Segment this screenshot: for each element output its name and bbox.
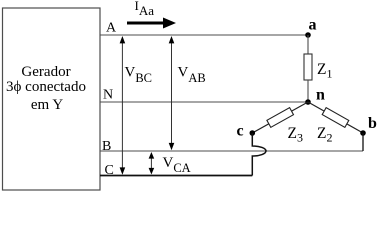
svg-text:C: C [105,163,114,178]
wire a to Z1 [307,35,309,54]
svg-text:c: c [237,123,244,140]
svg-text:a: a [309,17,317,34]
wire N [100,101,308,103]
wire c down with hop over wire B [252,133,266,176]
wire C [100,175,252,177]
node c [250,130,256,136]
svg-text:em Y: em Y [31,97,64,113]
wire b down to wire B [362,133,364,151]
svg-text:A: A [106,21,117,36]
impedance Z3 [267,108,294,128]
svg-text:3ϕ conectado: 3ϕ conectado [6,79,86,95]
svg-text:n: n [316,87,325,104]
impedance Z3 branch wire n to c [252,102,308,133]
generator label "Gerador 3φ conectado em Y" [6,64,86,113]
svg-text:N: N [103,88,113,103]
wire A [100,34,308,36]
node a [305,32,311,38]
wire Z1 to n [307,80,309,102]
node n [305,99,311,105]
voltage arrow VAB [171,40,173,147]
svg-text:b: b [368,115,377,132]
svg-text:Gerador: Gerador [21,64,70,80]
generator box [3,8,101,190]
voltage arrow VBC [121,40,123,171]
impedance Z1 [304,54,312,80]
current arrow IAa [127,18,176,29]
impedance Z2 [322,108,349,128]
impedance Z2 branch wire n to b [308,102,363,133]
wire B [100,150,363,152]
node b [360,130,366,136]
voltage arrow VCA [150,155,152,172]
svg-text:B: B [102,139,111,154]
